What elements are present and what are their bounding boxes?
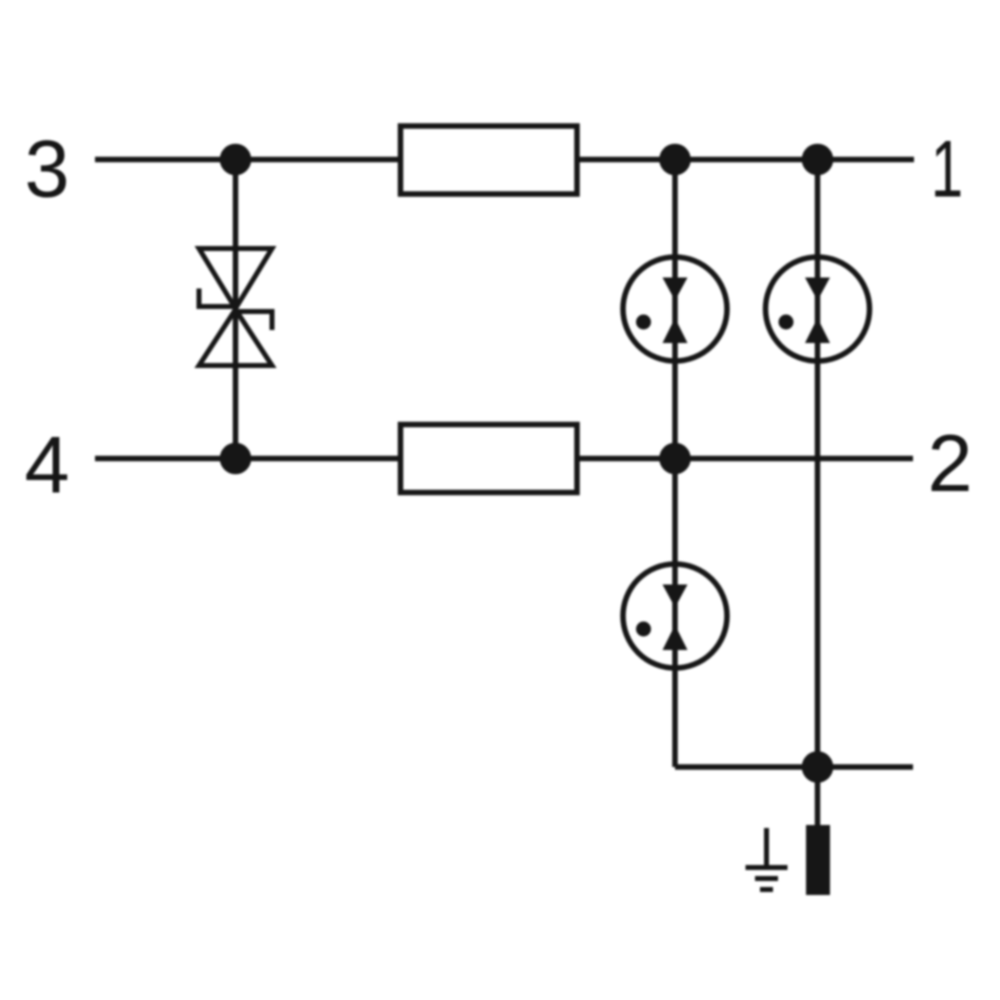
gas discharge arrester F3: [623, 564, 727, 668]
node junction ground rail: [802, 751, 834, 783]
svg-text:1: 1: [931, 123, 963, 214]
earth electrode bar: [806, 825, 830, 895]
gas discharge arrester F2: [766, 257, 870, 361]
node junction at 4 rail and diode branch: [220, 443, 252, 475]
node junction top rail and F2 branch: [802, 144, 834, 176]
gas discharge arrester F1: [623, 257, 727, 361]
svg-text:4: 4: [24, 421, 69, 511]
node junction lower rail and F3 branch: [659, 443, 691, 475]
resistor R1 (top): [401, 126, 578, 194]
wire lower rail 4 to 2: [95, 456, 913, 462]
wire vertical through suppressor diode: [233, 160, 239, 459]
node junction top rail and F1 branch: [659, 144, 691, 176]
svg-text:3: 3: [24, 125, 69, 215]
ground symbol: [746, 828, 788, 890]
svg-text:2: 2: [927, 419, 972, 509]
resistor R2 (bottom): [401, 425, 578, 493]
terminal label 1: [931, 123, 963, 214]
node junction at 3 rail and diode branch: [220, 144, 252, 176]
wire top rail 3 to 1: [95, 157, 914, 163]
wire vertical through arrester F1 and F3: [672, 160, 678, 768]
wire bottom ground rail: [675, 764, 913, 770]
suppressor diode (bidirectional TVS): [199, 249, 272, 366]
wire vertical through arrester F2 to earth electrode: [815, 160, 821, 831]
